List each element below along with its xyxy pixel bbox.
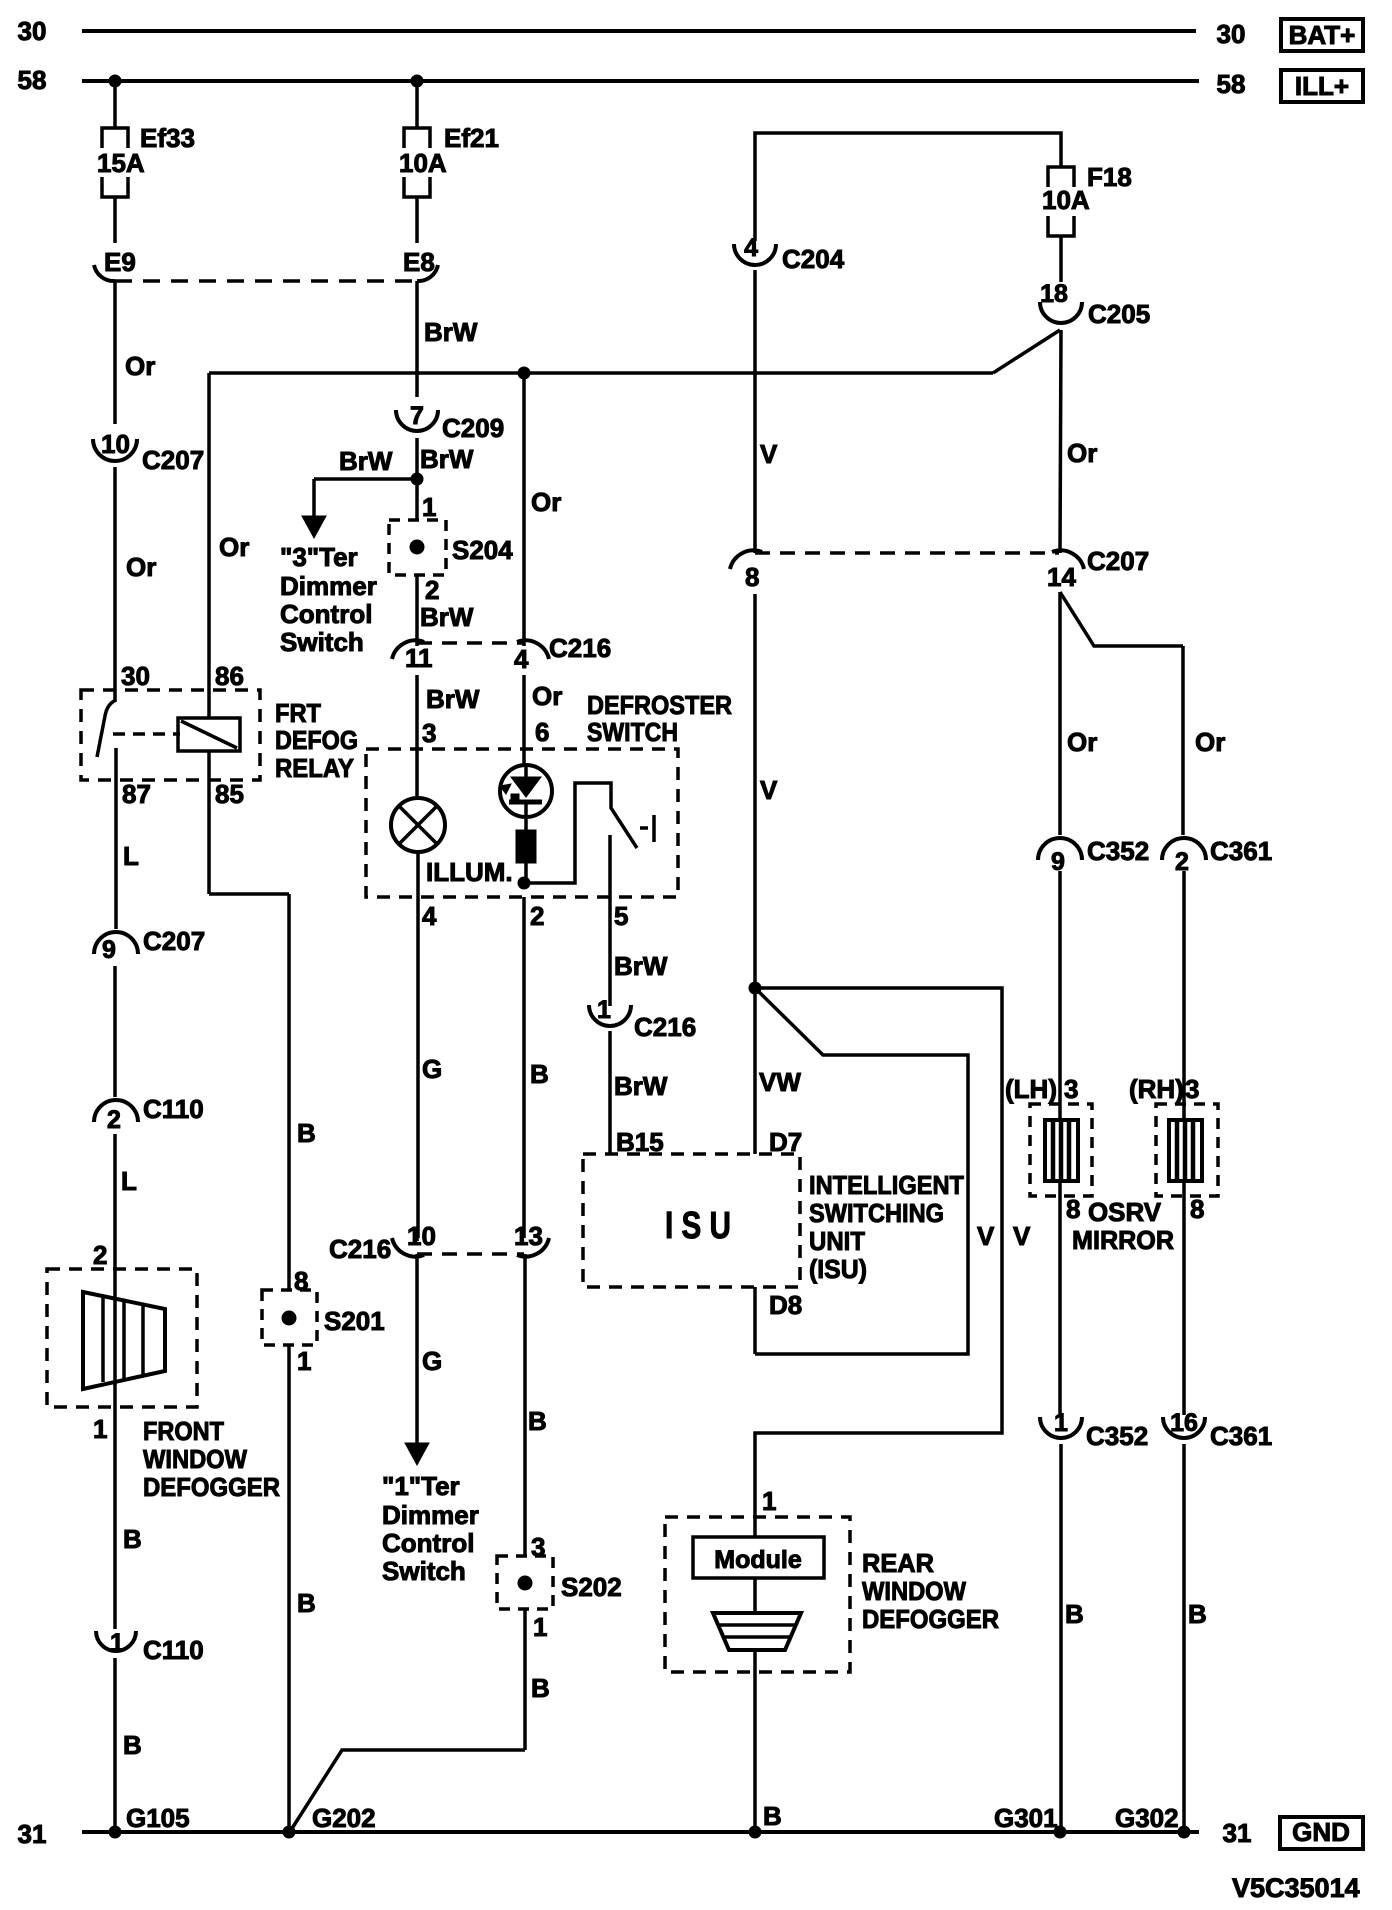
- svg-text:DEFOGGER: DEFOGGER: [143, 1472, 280, 1502]
- svg-text:B: B: [1065, 1599, 1084, 1629]
- svg-text:BrW: BrW: [426, 684, 480, 714]
- svg-text:FRONT: FRONT: [143, 1416, 224, 1446]
- svg-text:1: 1: [533, 1612, 547, 1642]
- svg-text:"1"Ter: "1"Ter: [382, 1471, 460, 1501]
- svg-text:2: 2: [425, 575, 439, 605]
- svg-text:VW: VW: [759, 1067, 801, 1097]
- svg-text:31: 31: [1223, 1818, 1252, 1848]
- svg-text:11: 11: [405, 643, 433, 673]
- svg-text:WINDOW: WINDOW: [862, 1576, 966, 1606]
- svg-text:C216: C216: [329, 1234, 391, 1264]
- svg-text:B: B: [530, 1059, 549, 1089]
- svg-text:C216: C216: [634, 1012, 696, 1042]
- svg-text:BrW: BrW: [420, 444, 474, 474]
- svg-text:B: B: [123, 1730, 142, 1760]
- svg-text:B: B: [763, 1801, 782, 1831]
- svg-text:Switch: Switch: [280, 627, 364, 657]
- svg-text:C110: C110: [143, 1635, 204, 1665]
- svg-text:58: 58: [18, 65, 47, 95]
- svg-text:10: 10: [101, 429, 130, 459]
- svg-text:OSRV: OSRV: [1088, 1197, 1162, 1227]
- svg-text:V: V: [760, 775, 778, 805]
- svg-text:31: 31: [18, 1819, 47, 1849]
- svg-text:10A: 10A: [399, 148, 447, 178]
- svg-text:C207: C207: [1087, 546, 1149, 576]
- svg-text:C205: C205: [1088, 299, 1150, 329]
- svg-text:8: 8: [1190, 1194, 1204, 1224]
- svg-text:DEFOGGER: DEFOGGER: [862, 1604, 999, 1634]
- svg-text:Module: Module: [714, 1546, 802, 1574]
- svg-text:Dimmer: Dimmer: [280, 571, 377, 601]
- svg-text:G302: G302: [1115, 1803, 1179, 1833]
- svg-text:F18: F18: [1087, 162, 1132, 192]
- svg-text:DEFROSTER: DEFROSTER: [587, 690, 732, 720]
- svg-text:UNIT: UNIT: [809, 1226, 865, 1256]
- svg-text:I S U: I S U: [665, 1205, 731, 1247]
- svg-text:1: 1: [762, 1486, 776, 1516]
- svg-text:85: 85: [215, 779, 244, 809]
- svg-text:4: 4: [514, 644, 529, 674]
- svg-text:INTELLIGENT: INTELLIGENT: [809, 1170, 964, 1200]
- svg-text:14: 14: [1047, 562, 1076, 592]
- svg-text:Or: Or: [531, 487, 561, 517]
- svg-text:ILLUM.: ILLUM.: [426, 857, 513, 887]
- svg-text:V: V: [760, 439, 778, 469]
- svg-text:16: 16: [1170, 1409, 1198, 1437]
- svg-text:Control: Control: [382, 1528, 474, 1558]
- svg-text:Or: Or: [532, 681, 562, 711]
- svg-text:S201: S201: [324, 1306, 385, 1336]
- svg-text:E9: E9: [104, 247, 136, 277]
- svg-text:FRT: FRT: [275, 698, 321, 728]
- svg-text:REAR: REAR: [862, 1548, 934, 1578]
- svg-text:6: 6: [535, 717, 549, 747]
- svg-text:L: L: [121, 1166, 137, 1196]
- svg-text:4: 4: [744, 234, 758, 262]
- svg-text:B: B: [297, 1118, 316, 1148]
- svg-text:GND: GND: [1292, 1817, 1350, 1847]
- svg-text:BrW: BrW: [420, 602, 474, 632]
- svg-text:S204: S204: [452, 535, 513, 565]
- svg-text:4: 4: [422, 901, 437, 931]
- svg-text:9: 9: [102, 936, 116, 964]
- svg-text:2: 2: [1175, 848, 1189, 876]
- svg-text:B: B: [531, 1673, 550, 1703]
- svg-text:87: 87: [122, 779, 151, 809]
- svg-text:3: 3: [1185, 1074, 1199, 1104]
- svg-text:G301: G301: [994, 1803, 1058, 1833]
- svg-text:DEFOG: DEFOG: [275, 725, 358, 755]
- svg-text:1: 1: [297, 1346, 311, 1376]
- svg-text:C361: C361: [1210, 1421, 1272, 1451]
- svg-text:C207: C207: [142, 445, 204, 475]
- svg-text:8: 8: [745, 562, 759, 592]
- svg-text:Or: Or: [1067, 727, 1097, 757]
- svg-text:E8: E8: [403, 247, 435, 277]
- svg-text:C207: C207: [143, 926, 205, 956]
- svg-text:2: 2: [530, 901, 544, 931]
- svg-text:B: B: [123, 1524, 142, 1554]
- svg-text:10A: 10A: [1042, 185, 1090, 215]
- svg-text:2: 2: [93, 1240, 107, 1270]
- svg-text:30: 30: [18, 16, 47, 46]
- svg-text:SWITCH: SWITCH: [587, 717, 678, 747]
- svg-text:C209: C209: [442, 413, 504, 443]
- svg-text:2: 2: [107, 1106, 121, 1134]
- svg-text:Switch: Switch: [382, 1556, 466, 1586]
- svg-text:MIRROR: MIRROR: [1072, 1225, 1174, 1255]
- svg-text:C216: C216: [549, 633, 611, 663]
- svg-text:C110: C110: [143, 1094, 204, 1124]
- svg-text:1: 1: [110, 1629, 124, 1657]
- svg-text:1: 1: [1054, 1409, 1068, 1437]
- svg-text:C352: C352: [1087, 836, 1149, 866]
- svg-text:Or: Or: [219, 532, 249, 562]
- svg-text:WINDOW: WINDOW: [143, 1444, 247, 1474]
- svg-text:B: B: [1188, 1599, 1207, 1629]
- svg-text:V: V: [977, 1221, 995, 1251]
- svg-text:1: 1: [93, 1414, 107, 1444]
- svg-text:Ef21: Ef21: [444, 123, 499, 153]
- svg-text:(LH): (LH): [1005, 1074, 1057, 1104]
- svg-text:30: 30: [121, 661, 150, 691]
- svg-text:G202: G202: [312, 1803, 376, 1833]
- svg-text:V5C35014: V5C35014: [1232, 1873, 1360, 1903]
- svg-text:18: 18: [1040, 280, 1068, 308]
- svg-text:8: 8: [1066, 1194, 1080, 1224]
- svg-text:Dimmer: Dimmer: [382, 1500, 479, 1530]
- svg-text:3: 3: [1064, 1074, 1078, 1104]
- svg-text:BAT+: BAT+: [1289, 20, 1356, 50]
- svg-text:3: 3: [422, 718, 436, 748]
- svg-text:Or: Or: [1067, 438, 1097, 468]
- svg-text:G: G: [422, 1346, 442, 1376]
- svg-text:C361: C361: [1210, 836, 1272, 866]
- svg-text:G: G: [422, 1054, 442, 1084]
- svg-text:B: B: [297, 1588, 316, 1618]
- svg-text:(ISU): (ISU): [809, 1254, 867, 1284]
- svg-text:RELAY: RELAY: [275, 753, 354, 783]
- svg-text:8: 8: [294, 1266, 308, 1296]
- svg-text:Ef33: Ef33: [140, 123, 195, 153]
- svg-text:Or: Or: [126, 552, 156, 582]
- svg-text:V: V: [1013, 1221, 1031, 1251]
- svg-text:G105: G105: [126, 1803, 190, 1833]
- svg-text:9: 9: [1051, 848, 1065, 876]
- svg-text:ILL+: ILL+: [1295, 71, 1349, 101]
- svg-text:C352: C352: [1086, 1421, 1148, 1451]
- svg-text:15A: 15A: [97, 148, 145, 178]
- svg-text:1: 1: [422, 492, 436, 522]
- svg-text:B: B: [528, 1406, 547, 1436]
- svg-text:58: 58: [1217, 69, 1246, 99]
- svg-text:BrW: BrW: [614, 1071, 668, 1101]
- svg-text:L: L: [123, 841, 139, 871]
- svg-text:Or: Or: [1195, 727, 1225, 757]
- svg-text:S202: S202: [561, 1572, 622, 1602]
- svg-text:30: 30: [1217, 19, 1246, 49]
- svg-text:5: 5: [614, 901, 628, 931]
- svg-text:SWITCHING: SWITCHING: [809, 1198, 944, 1228]
- svg-text:C204: C204: [782, 244, 845, 274]
- svg-text:Or: Or: [125, 351, 155, 381]
- svg-text:7: 7: [410, 402, 424, 430]
- svg-text:1: 1: [597, 996, 611, 1024]
- svg-text:13: 13: [514, 1221, 543, 1251]
- svg-text:"3"Ter: "3"Ter: [280, 542, 358, 572]
- svg-text:86: 86: [215, 661, 244, 691]
- svg-text:3: 3: [531, 1532, 545, 1562]
- svg-text:10: 10: [407, 1221, 436, 1251]
- svg-text:BrW: BrW: [614, 951, 668, 981]
- svg-text:BrW: BrW: [339, 446, 393, 476]
- svg-text:BrW: BrW: [424, 317, 478, 347]
- svg-text:(RH): (RH): [1129, 1074, 1184, 1104]
- svg-text:Control: Control: [280, 599, 372, 629]
- svg-text:D8: D8: [769, 1290, 802, 1320]
